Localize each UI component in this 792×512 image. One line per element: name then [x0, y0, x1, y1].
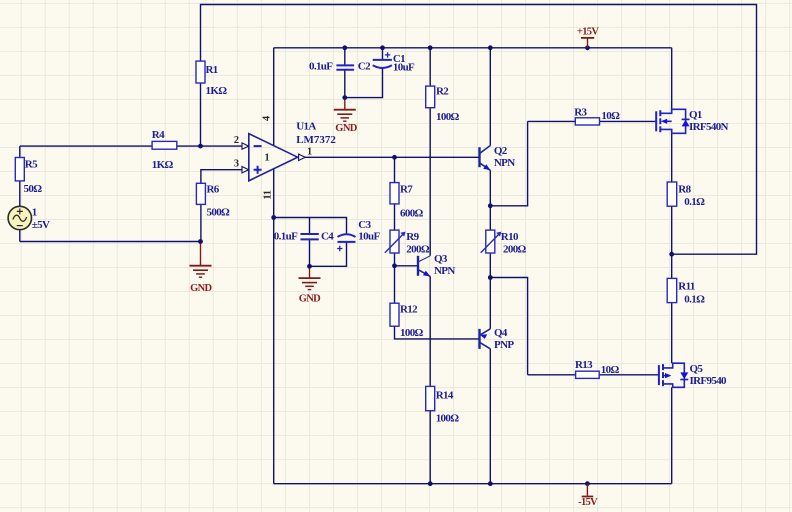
capacitor C1 (polarized): [373, 60, 392, 68]
wire C1 bottom stem: [345, 68, 383, 98]
svg-text:R11: R11: [678, 280, 695, 292]
wire Q4 collector down: [489, 349, 491, 484]
wire Q4 emitter up: [489, 278, 491, 329]
svg-text:4: 4: [262, 116, 273, 121]
wire R13 to Q5 gate: [599, 374, 658, 376]
transistor Q2 NPN: [480, 146, 491, 171]
svg-text:1KΩ: 1KΩ: [206, 85, 228, 97]
op-amp output arrow: [299, 154, 306, 160]
wire R5 to source: [19, 181, 21, 206]
svg-text:100Ω: 100Ω: [436, 412, 460, 424]
wire R9 to R12: [394, 253, 396, 303]
plus sign C3: [337, 246, 342, 251]
resistor R13: [576, 371, 600, 378]
wire pin11 chain down: [273, 169, 275, 484]
resistor R8: [667, 182, 677, 206]
svg-text:R4: R4: [152, 129, 165, 141]
wire R8 to R11 output node: [671, 206, 673, 278]
op-amp U1A triangle: [249, 134, 298, 181]
ground symbol (C4/C3): [299, 268, 321, 289]
voltage source V1: [8, 206, 31, 229]
potentiometer arrow R10: [481, 232, 502, 253]
svg-text:Q4: Q4: [494, 327, 508, 339]
wire Q3 emitter to R14: [429, 276, 431, 386]
MOSFET Q5 IRF9540: [659, 363, 688, 387]
wire opamp output row: [298, 156, 480, 158]
wire left column R5 top: [19, 146, 21, 157]
MOSFET Q1 IRF540N: [656, 109, 689, 133]
svg-text:600Ω: 600Ω: [400, 207, 424, 219]
svg-text:R10: R10: [501, 231, 519, 243]
wire R1 bottom to inverting node: [200, 83, 202, 146]
svg-text:0.1uF: 0.1uF: [274, 230, 298, 242]
svg-text:10Ω: 10Ω: [601, 364, 620, 376]
wire C2 top stem: [344, 48, 346, 65]
wire bottom-left rail: [20, 241, 201, 243]
svg-text:Q2: Q2: [494, 145, 508, 157]
wire pin2 row: [20, 145, 242, 147]
resistor R1: [196, 61, 205, 83]
svg-text:R3: R3: [574, 106, 587, 118]
op-amp minus input mark: [254, 145, 262, 147]
resistor R14: [426, 386, 435, 410]
wire C4 C3 bottom link: [310, 242, 347, 266]
svg-text:0.1Ω: 0.1Ω: [684, 196, 705, 208]
wire feedback loop top/right: [201, 5, 757, 255]
svg-text:100Ω: 100Ω: [400, 327, 424, 339]
wire Q1 source to R8: [671, 133, 673, 182]
wire R12 bottom to Q4 base row: [395, 326, 480, 339]
svg-text:GND: GND: [190, 283, 212, 294]
wire C2 bottom stem: [344, 70, 346, 98]
svg-text:NPN: NPN: [434, 265, 455, 277]
resistor R7: [390, 183, 399, 204]
wire R10 bottom stem: [489, 253, 491, 278]
resistor R10 body: [486, 230, 495, 253]
svg-text:0.1Ω: 0.1Ω: [684, 293, 705, 305]
transistor Q4 PNP: [480, 329, 491, 349]
wire R6 bottom stem: [200, 204, 202, 241]
capacitor C3 (polarized): [338, 234, 356, 242]
svg-text:+15V: +15V: [577, 27, 600, 38]
wire C1 top stem: [382, 48, 384, 60]
wire Q5 source down: [671, 387, 673, 483]
svg-text:1: 1: [307, 146, 312, 157]
wire Q2 emitter to R3 branch: [490, 121, 527, 205]
ground symbol (C2/C1): [334, 100, 356, 122]
svg-text:GND: GND: [299, 293, 321, 304]
svg-text:1: 1: [32, 206, 37, 218]
wire R3 to Q1 gate: [600, 120, 656, 122]
svg-text:LM7372: LM7372: [296, 134, 336, 146]
svg-text:R9: R9: [406, 231, 419, 243]
svg-text:R1: R1: [206, 64, 218, 76]
wire R14 bottom stem: [429, 411, 431, 484]
svg-text:11: 11: [263, 190, 274, 199]
power +15V bar: [581, 38, 594, 48]
resistor R5: [15, 158, 24, 181]
svg-text:10Ω: 10Ω: [601, 110, 620, 122]
resistor R9 body: [390, 230, 399, 253]
ground symbol (input): [190, 244, 212, 278]
svg-text:1KΩ: 1KΩ: [152, 159, 174, 171]
wire R11 to Q5 drain: [671, 303, 673, 364]
wire pin4: [273, 48, 275, 146]
svg-text:Q1: Q1: [689, 109, 702, 121]
svg-text:200Ω: 200Ω: [503, 243, 527, 255]
wire R10 top stem: [489, 206, 491, 230]
svg-text:R12: R12: [400, 304, 418, 316]
wire Q1 drain: [671, 48, 673, 110]
wire C4 top stem: [309, 218, 311, 234]
svg-text:0.1uF: 0.1uF: [309, 60, 333, 72]
wire Q2 collector up: [489, 48, 491, 146]
svg-text:C2: C2: [358, 61, 371, 73]
wire Q2 emitter down: [489, 170, 491, 206]
svg-text:50Ω: 50Ω: [24, 183, 43, 195]
svg-text:C3: C3: [358, 219, 371, 231]
svg-text:GND: GND: [335, 123, 357, 134]
svg-text:PNP: PNP: [494, 339, 514, 351]
svg-text:±5V: ±5V: [32, 219, 50, 231]
svg-text:10uF: 10uF: [358, 230, 380, 242]
svg-text:C4: C4: [321, 230, 334, 242]
resistor R12: [390, 303, 399, 326]
wire R3 row left: [528, 120, 576, 122]
wire pin3 row: [201, 170, 242, 184]
svg-text:100Ω: 100Ω: [436, 111, 460, 123]
svg-text:10uF: 10uF: [393, 62, 415, 74]
svg-text:R5: R5: [25, 158, 38, 170]
resistor R4: [152, 141, 177, 149]
svg-text:1: 1: [265, 153, 270, 164]
wire C4 C3 top branch: [274, 218, 347, 234]
svg-text:R2: R2: [436, 85, 449, 97]
wire C4 bottom stem: [309, 240, 311, 266]
svg-text:200Ω: 200Ω: [406, 243, 430, 255]
wire top rail: [274, 47, 672, 49]
wire R7 top stem: [394, 157, 396, 182]
svg-text:R6: R6: [207, 183, 220, 195]
plus sign C1: [385, 52, 390, 57]
wire R2 top stem: [429, 48, 431, 86]
svg-text:3: 3: [234, 159, 239, 170]
svg-text:U1A: U1A: [296, 121, 316, 133]
op-amp pin2 arrow: [242, 143, 249, 149]
svg-text:Q3: Q3: [434, 253, 448, 265]
svg-text:R13: R13: [575, 359, 593, 371]
op-amp plus input mark: [254, 166, 262, 174]
resistor R6: [196, 183, 205, 204]
svg-text:R7: R7: [400, 183, 413, 195]
svg-text:-15V: -15V: [578, 497, 598, 508]
wire Q3 base: [395, 265, 419, 267]
wire R10 bottom to R13 branch: [490, 278, 527, 375]
wire bottom rail: [274, 483, 672, 485]
resistor R11: [667, 278, 677, 302]
resistor R3: [575, 118, 599, 125]
svg-text:2: 2: [234, 135, 239, 146]
svg-text:NPN: NPN: [494, 157, 515, 169]
resistor R2: [426, 86, 435, 108]
potentiometer arrow R9: [385, 232, 406, 253]
svg-text:IRF9540: IRF9540: [690, 375, 728, 387]
transistor Q3 NPN: [418, 256, 430, 277]
svg-text:500Ω: 500Ω: [207, 206, 231, 218]
wire R7 to R9: [394, 204, 396, 230]
wire R2 to Q3 collector: [429, 108, 431, 256]
op-amp pin3 arrow: [242, 167, 249, 173]
power -15V bar: [582, 484, 594, 497]
svg-text:R14: R14: [436, 389, 454, 401]
wire source to bottom rail: [19, 230, 21, 242]
capacitor C4: [300, 234, 318, 239]
capacitor C2: [336, 65, 354, 69]
svg-text:IRF540N: IRF540N: [689, 121, 729, 133]
svg-text:R8: R8: [678, 183, 691, 195]
svg-text:Q5: Q5: [690, 363, 704, 375]
wire R13 row left: [528, 374, 576, 376]
